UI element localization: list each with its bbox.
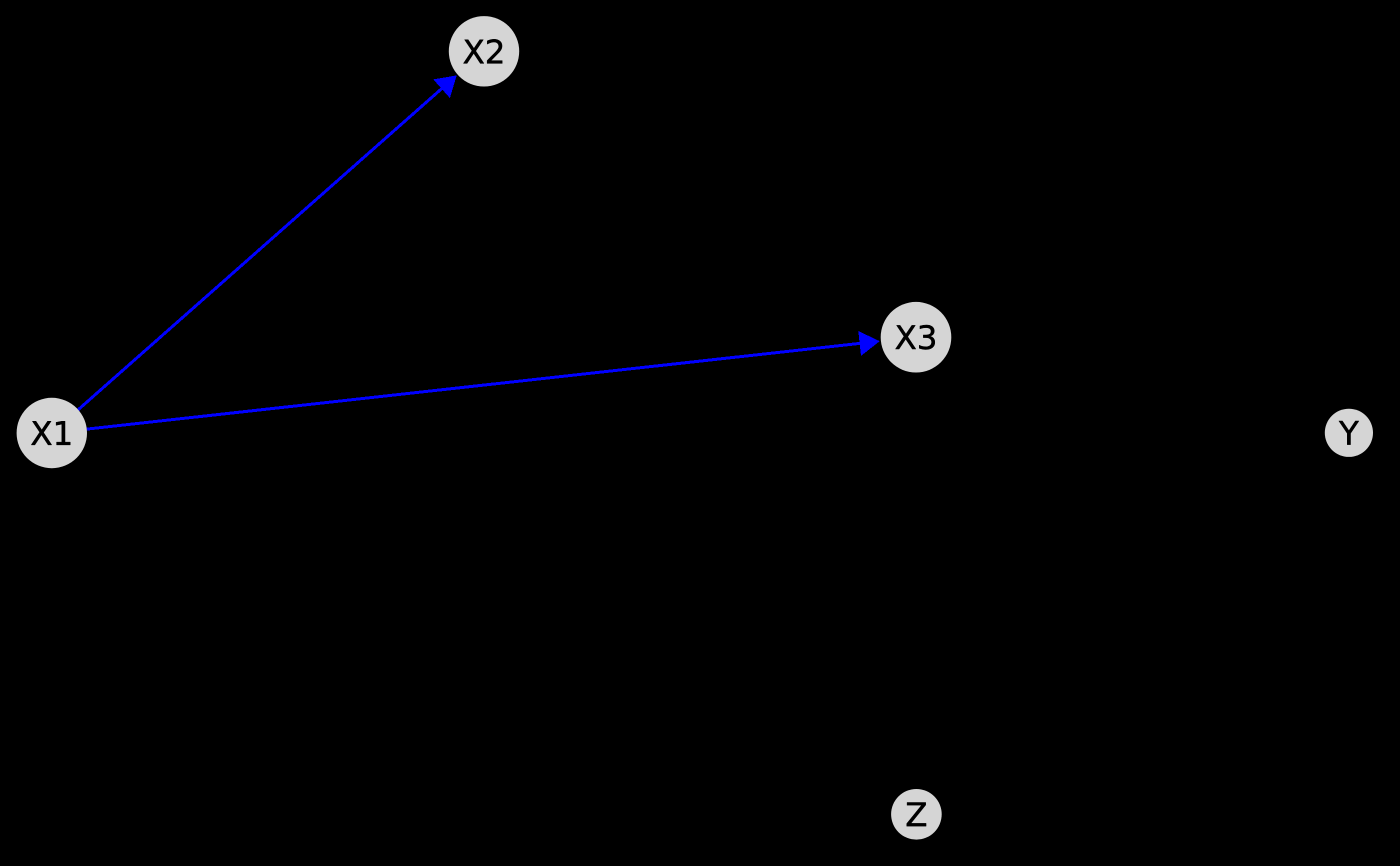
arrowhead at X3 (858, 331, 879, 356)
node X2 (449, 16, 519, 86)
node X3 (881, 302, 952, 373)
wire X1->X3 (87, 343, 862, 429)
label X3 (896, 325, 935, 350)
arrowhead at X2 (433, 75, 456, 98)
node Z (891, 789, 942, 840)
label X2 (464, 39, 503, 63)
node Y (1325, 409, 1373, 457)
edge X1->X2 (78, 75, 457, 409)
wire X1->X2 (78, 87, 443, 409)
edge X1->X3 (87, 331, 880, 429)
label Z (907, 802, 926, 826)
label Y (1339, 421, 1359, 445)
label X1 (31, 421, 70, 445)
node X1 (17, 398, 87, 468)
